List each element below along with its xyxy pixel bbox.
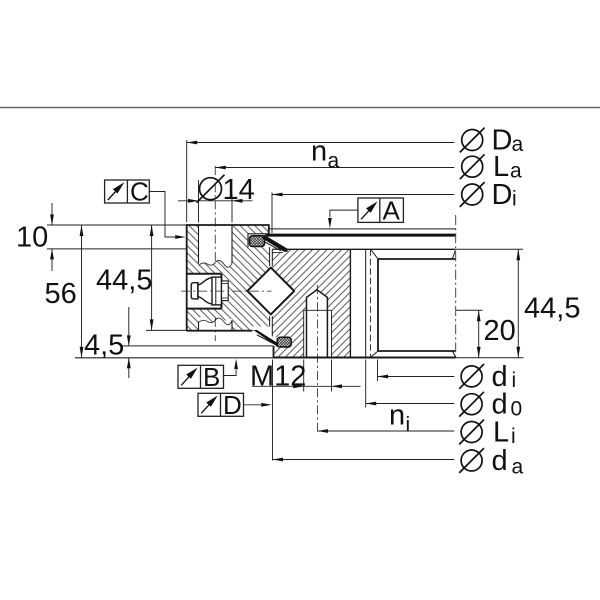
dimension Ø14: [178, 180, 253, 223]
svg-text:A: A: [383, 196, 401, 226]
M12 thread major lines: [304, 310, 332, 357]
svg-text:44,5: 44,5: [524, 293, 580, 325]
bottom face of rings: [274, 357, 456, 359]
svg-text:L: L: [493, 417, 509, 449]
label Ø d0: [459, 389, 522, 421]
extension line for 20: [456, 309, 483, 311]
nipple / roller centerline: [181, 290, 272, 292]
label Ø da: [459, 445, 523, 479]
page rule line: [0, 107, 600, 109]
extension line Da (outer face up): [186, 140, 188, 222]
dimension 44,5 left: [150, 225, 154, 330]
inner top extension line right: [456, 248, 523, 250]
svg-text:D: D: [223, 390, 242, 420]
extension line da/D datum: [272, 360, 274, 461]
wavy break line lower: [199, 318, 233, 325]
side-view corner chamfer diagonals: [371, 250, 455, 356]
roller (crossed roller diamond): [247, 268, 294, 315]
bottom reference extension line: [75, 357, 274, 359]
svg-text:n: n: [389, 400, 405, 432]
grease nipple thread stub: [221, 281, 228, 301]
label Ø Da: [460, 125, 524, 157]
top face extension line left: [47, 224, 187, 226]
dimension 10: [50, 203, 54, 271]
section boundary of inner ring: [349, 249, 351, 357]
leader Ø di: [378, 375, 455, 379]
broken-out section hatch below nipple pocket: [199, 309, 233, 323]
dimension M12: [252, 384, 361, 388]
flag C: [105, 177, 186, 239]
inner top extension line left: [47, 248, 187, 250]
M12 hole core outline: [307, 290, 328, 357]
extension line Di (gap up): [271, 193, 273, 234]
leader Ø d0: [366, 402, 455, 406]
outer ring section hatch: [187, 225, 270, 331]
sealing strip (thick band): [266, 234, 456, 237]
svg-text:i: i: [511, 425, 516, 448]
leader Ø Da with na: [187, 141, 455, 145]
label Ø Li: [459, 417, 515, 449]
svg-text:a: a: [512, 456, 524, 479]
wavy break line upper: [199, 260, 233, 267]
dimension 20: [477, 310, 481, 358]
inner ring top ledge: [272, 250, 283, 253]
svg-text:i: i: [406, 414, 411, 437]
svg-text:d: d: [492, 445, 508, 477]
hatch right of nipple pocket: [221, 274, 232, 309]
inner ring section hatch: [272, 249, 350, 357]
raceway shoulder line (d0): [365, 249, 367, 357]
right edge centerline: [455, 215, 457, 358]
leader Ø La: [215, 166, 454, 170]
svg-text:i: i: [512, 188, 517, 211]
lower seal block: [277, 337, 291, 347]
upper seal block: [250, 236, 265, 247]
svg-text:a: a: [512, 133, 524, 156]
svg-text:10: 10: [16, 222, 48, 254]
grease nipple body: [191, 277, 221, 305]
mounting hole Ø14 (white bore): [199, 224, 233, 331]
Ø14 bore lines: [199, 225, 233, 331]
label Ø di: [459, 361, 516, 393]
rim edge line behind gap: [269, 228, 456, 230]
flag B: [178, 359, 238, 392]
svg-text:a: a: [328, 150, 340, 173]
dimension 44,5 right: [516, 249, 520, 357]
extension line di: [377, 360, 379, 382]
gap between rings below roller: [269, 316, 271, 326]
svg-text:20: 20: [484, 315, 516, 347]
inner ring top face: [272, 248, 455, 250]
svg-text:14: 14: [223, 174, 255, 206]
extension line for 44,5 left: [146, 329, 187, 331]
dimension 56: [80, 225, 84, 358]
dimension 4,5: [127, 307, 131, 378]
svg-text:44,5: 44,5: [96, 265, 152, 297]
svg-text:56: 56: [45, 278, 77, 310]
extension line d0: [365, 360, 367, 408]
outer ring outline: [187, 225, 269, 331]
extension line for 4,5: [120, 345, 274, 347]
side-view face rectangle: [378, 259, 455, 351]
leader Ø Di: [272, 193, 454, 197]
gap between rings above roller: [269, 247, 271, 266]
svg-text:n: n: [311, 136, 327, 168]
flag D: [198, 390, 272, 420]
svg-text:C: C: [130, 177, 149, 207]
svg-text:D: D: [492, 179, 513, 211]
extension lines M12: [303, 360, 305, 392]
svg-text:0: 0: [511, 398, 523, 421]
svg-text:B: B: [203, 362, 220, 392]
svg-text:4,5: 4,5: [84, 330, 124, 362]
hidden line (dashed): [369, 249, 371, 357]
inner ring lower-left corner: [273, 346, 275, 358]
grease nipple pocket (white): [186, 274, 221, 309]
leader Ø da: [273, 458, 455, 462]
Ø14 hole centerline: [214, 166, 216, 262]
leader Ø Li with ni: [318, 429, 455, 433]
broken-out section hatch above nipple pocket: [199, 260, 233, 273]
svg-text:M12: M12: [250, 361, 306, 393]
svg-text:i: i: [512, 369, 517, 392]
M12 threaded hole (white): [304, 290, 332, 358]
grease nipple pocket outline: [186, 274, 221, 309]
lower seal lip: [253, 330, 278, 347]
flag A: [328, 196, 403, 229]
M12 centerline: [317, 285, 319, 434]
label Ø Di: [460, 179, 517, 211]
label Ø La: [460, 151, 522, 183]
upper seal lip: [262, 235, 287, 252]
